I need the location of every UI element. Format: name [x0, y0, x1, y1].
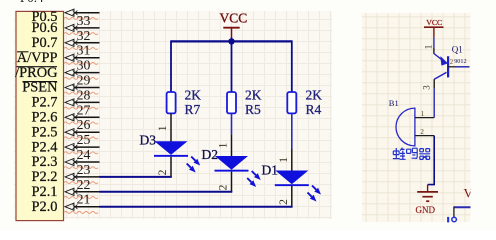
svg-text:B1: B1: [389, 98, 399, 108]
label 蜂鸣器 (buzzer) hand-drawn glyphs: [393, 148, 430, 160]
wire P2.2 to D3: [100, 176, 172, 178]
resistor R7: [167, 92, 176, 113]
svg-text:2: 2: [278, 199, 290, 205]
svg-text:1: 1: [157, 125, 169, 131]
svg-text:VCC: VCC: [426, 18, 442, 27]
wire D3 cathode down: [170, 157, 172, 177]
pin P2.3 (pin 24): [32, 147, 100, 170]
buzzer B1: [396, 108, 434, 146]
svg-text:28: 28: [77, 87, 91, 102]
junction on VCC rail: [228, 38, 234, 44]
svg-text:P0.7: P0.7: [32, 35, 58, 51]
MCU part body U1: [16, 11, 64, 220]
svg-text:D3: D3: [140, 133, 157, 148]
svg-text:D2: D2: [202, 147, 219, 162]
svg-text:2: 2: [450, 59, 454, 66]
wire R5 to D2 anode: [231, 113, 233, 134]
wire R7 to D3 anode: [170, 113, 172, 141]
wire D1 cathode down: [291, 186, 293, 207]
pin P2.5 (pin 26): [32, 117, 100, 140]
svg-text:33: 33: [77, 13, 91, 28]
wire D2 cathode down: [231, 172, 233, 192]
svg-text:1: 1: [423, 45, 433, 50]
wire VCC to Q1 emitter: [433, 37, 435, 48]
svg-text:P0.6: P0.6: [32, 20, 58, 36]
svg-text:22: 22: [77, 177, 91, 192]
svg-text:Q1: Q1: [452, 45, 463, 55]
pin P0.5 (pin 34): [32, 9, 100, 25]
svg-text:23: 23: [77, 162, 91, 177]
pin P2.2 (pin 23): [32, 162, 100, 185]
svg-text:R4: R4: [306, 102, 322, 117]
svg-text:31: 31: [77, 43, 91, 58]
pin P2.0 (pin 21): [32, 192, 100, 215]
wire P2.0 to D1: [100, 206, 293, 208]
wire bottom right vertical: [453, 207, 455, 218]
wire P2.1 to D2: [100, 191, 233, 193]
pin EA/VPP (pin 31): [17, 43, 100, 66]
svg-text:R7: R7: [185, 102, 201, 117]
svg-text:2: 2: [218, 184, 230, 190]
LED D3: [154, 142, 200, 173]
svg-text:P0.4: P0.4: [20, 0, 44, 5]
svg-text:P2.1: P2.1: [32, 184, 58, 200]
svg-text:1: 1: [218, 142, 230, 148]
svg-text:3: 3: [422, 85, 432, 90]
svg-text:P2.2: P2.2: [32, 169, 58, 185]
svg-text:VCC: VCC: [220, 11, 248, 26]
svg-text:29: 29: [77, 73, 91, 88]
svg-text:27: 27: [77, 102, 91, 117]
svg-text:R5: R5: [245, 102, 261, 117]
transistor Q1: [434, 54, 448, 80]
svg-text:21: 21: [77, 192, 91, 207]
svg-text:2K: 2K: [185, 87, 202, 102]
pin P2.6 (pin 27): [32, 102, 100, 125]
svg-text:2: 2: [420, 128, 424, 136]
svg-text:25: 25: [77, 132, 91, 147]
power bar symbol VCC: [223, 28, 239, 38]
pin P2.4 (pin 25): [32, 132, 100, 155]
ground GND: [416, 185, 439, 215]
wire rail to R7: [170, 40, 172, 92]
wire rail to R5: [231, 41, 233, 92]
pin P2.7 (pin 28): [32, 87, 100, 110]
wire VCC stem to rail: [231, 38, 233, 42]
svg-text:9012: 9012: [454, 58, 466, 65]
wire R4 to D1 anode: [291, 113, 293, 149]
svg-text:P2.5: P2.5: [32, 124, 58, 140]
svg-text:P2.4: P2.4: [32, 139, 58, 155]
svg-text:2K: 2K: [306, 87, 323, 102]
svg-text:1: 1: [421, 110, 425, 118]
svg-text:P2.6: P2.6: [32, 110, 58, 126]
pin P0.7 (pin 32): [32, 28, 100, 51]
wire stub (clipped): [447, 217, 449, 223]
pin ALE/PROG (pin 30): [15, 58, 99, 81]
svg-text:GND: GND: [416, 205, 436, 215]
white margin right of pasted section: [471, 0, 496, 230]
svg-text:1: 1: [278, 157, 290, 163]
wire buzzer pin 2 to GND: [428, 136, 435, 185]
svg-text:30: 30: [77, 58, 91, 73]
pin P2.1 (pin 22): [32, 177, 100, 200]
pin P0.6 (pin 33): [32, 13, 100, 36]
wire VCC rail: [171, 40, 292, 42]
svg-text:2: 2: [157, 169, 169, 175]
svg-text:P2.0: P2.0: [32, 199, 58, 215]
power bar symbol VCC right: [424, 27, 444, 37]
svg-text:32: 32: [77, 28, 91, 43]
svg-text:24: 24: [77, 147, 91, 162]
LED D1: [275, 171, 321, 202]
node open circle: [452, 217, 457, 222]
wire bottom right horizontal: [454, 206, 471, 208]
svg-text:P2.7: P2.7: [32, 95, 58, 111]
svg-text:P2.3: P2.3: [32, 154, 58, 170]
svg-text:D1: D1: [262, 163, 279, 178]
resistor R5: [227, 92, 236, 113]
pin PSEN (pin 29): [22, 73, 99, 96]
wire rail to R4: [291, 40, 293, 92]
LED D2: [215, 156, 261, 187]
wire Q1 collector to buzzer pin 1: [433, 79, 435, 88]
svg-text:26: 26: [77, 117, 91, 132]
resistor R4: [287, 92, 296, 113]
wire Q1 base to right edge: [448, 66, 455, 68]
svg-text:2K: 2K: [245, 87, 262, 102]
